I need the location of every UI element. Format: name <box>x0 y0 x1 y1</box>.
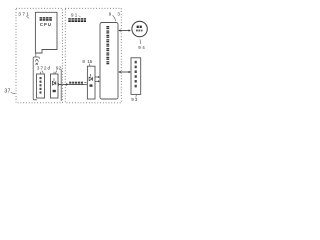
svg-text:92: 92 <box>56 66 62 71</box>
double arrow motor drive to touch sensor <box>119 71 130 73</box>
leader for 93 <box>135 95 138 98</box>
dashed enclosure 37 (left section) <box>16 8 62 103</box>
CPU box title text blob <box>40 17 52 21</box>
arrow motor drive to motor (double headed) <box>119 30 130 32</box>
leader for 815 <box>88 64 91 66</box>
leader for 91 <box>79 15 81 18</box>
leader for 92 <box>56 71 57 74</box>
box B1 (light source driver, vertical text) <box>37 74 45 98</box>
wire stub above box B1 <box>40 72 42 74</box>
light beam line from B2 to receiver <box>58 83 87 85</box>
small mark (kana) on wire <box>35 59 38 61</box>
svg-text:93: 93 <box>131 97 138 102</box>
box U371 CPU <box>35 12 57 53</box>
svg-text:371: 371 <box>18 11 30 17</box>
small blob in receiver <box>90 84 93 86</box>
box U92 touch sensor <box>131 58 141 95</box>
motor circle text blobs <box>137 26 139 28</box>
wire from CPU tab down <box>35 53 37 58</box>
B1 vertical text blob <box>40 77 42 94</box>
photodiode symbol <box>89 77 92 81</box>
svg-text:94: 94 <box>138 45 146 50</box>
wire stub above box B2 <box>53 72 55 74</box>
leader for 37 <box>11 92 15 93</box>
light beam label text blob <box>69 82 83 85</box>
leader for 372d <box>42 71 43 74</box>
sub-assembly enclosure box around B1/B2 <box>33 57 39 100</box>
box U815 (photo receiver) <box>87 66 95 99</box>
svg-text:372d: 372d <box>37 66 51 71</box>
svg-text:91: 91 <box>71 13 79 18</box>
small tick before receiver box <box>84 81 86 83</box>
box U93 motor drive circuit <box>100 23 118 100</box>
LED symbol in B2 <box>52 81 55 85</box>
dashed enclosure 91 (middle section) <box>65 8 121 103</box>
svg-text:CPU: CPU <box>40 22 52 27</box>
box B2 (LED, symbol) <box>51 74 59 98</box>
leader for 94 <box>139 39 142 44</box>
touch sensor vertical text blobs <box>135 61 137 88</box>
middle section title text blob <box>68 18 86 22</box>
arrows receiver to motor-drive box <box>95 76 98 78</box>
svg-text:37: 37 <box>4 89 10 95</box>
leader for 371 <box>27 16 30 18</box>
motor drive vertical text blob <box>106 26 109 64</box>
small text blob in B2 <box>53 90 56 92</box>
motor circle U94 <box>132 21 147 36</box>
leader for 93 <box>113 15 116 21</box>
